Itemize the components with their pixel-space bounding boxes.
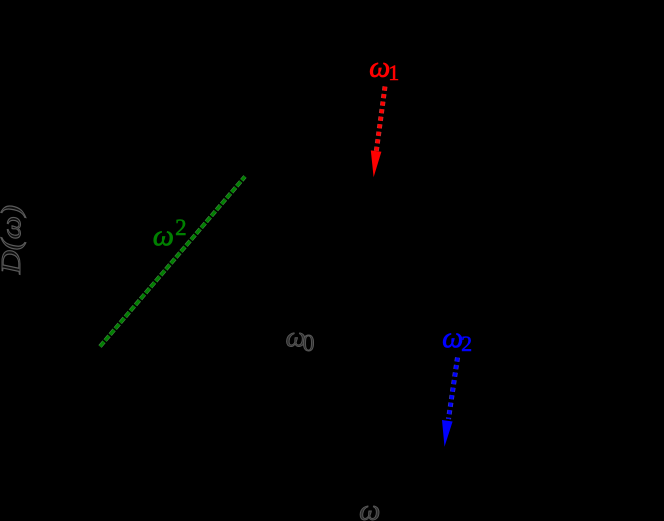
red arrowhead: [371, 150, 382, 177]
green label omega^2: [153, 215, 187, 252]
svg-text:2: 2: [461, 331, 472, 356]
svg-text:D(ω): D(ω): [0, 205, 26, 275]
gray label omega_0: [286, 321, 315, 357]
svg-text:ω: ω: [359, 493, 380, 521]
svg-text:1: 1: [388, 60, 399, 85]
blue dotted arrow shaft: [449, 358, 458, 420]
blue arrowhead: [442, 420, 453, 447]
svg-text:ω: ω: [369, 50, 390, 83]
green dashed omega^2 line: [100, 177, 245, 347]
red dotted arrow shaft: [376, 87, 385, 153]
red label omega_1: [369, 50, 399, 85]
blue label omega_2: [442, 321, 472, 356]
svg-text:2: 2: [175, 215, 187, 240]
svg-text:0: 0: [303, 331, 315, 357]
svg-text:ω: ω: [153, 219, 174, 252]
